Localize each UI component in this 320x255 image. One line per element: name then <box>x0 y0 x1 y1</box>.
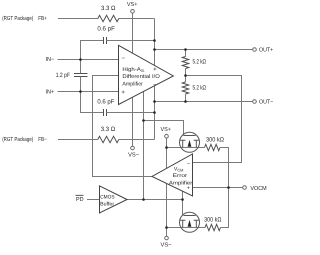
wire OUT+ row <box>155 49 253 51</box>
wire R6 to VOCM node <box>221 188 229 228</box>
svg-text:5.2 kΩ: 5.2 kΩ <box>193 59 207 66</box>
wire VS- bottom terminal riser <box>166 228 168 237</box>
node junction dot 6 <box>153 111 156 114</box>
node junction dot 9 <box>184 100 187 103</box>
wire VS+ mid terminal drop <box>166 138 168 168</box>
wire error amp output to main amp (CM control) <box>93 76 153 177</box>
wire C2 to IN+ <box>80 77 82 92</box>
power VS+ top drop to amplifier <box>132 13 134 53</box>
op-amp U1 High-AOL Differential I/O Amplifier <box>119 45 174 104</box>
node junction dot 11 <box>165 226 168 229</box>
svg-text:OUT+: OUT+ <box>259 46 274 53</box>
svg-text:VOCM: VOCM <box>250 185 266 192</box>
node junction dot 8 <box>184 74 187 77</box>
svg-text:(RGT Package): (RGT Package) <box>2 15 33 22</box>
wire PD rail from amplifier to buffer output <box>143 91 145 199</box>
node junction dot 14 <box>181 198 184 201</box>
node junction dot 1 <box>79 58 82 61</box>
svg-text:−: − <box>122 56 126 62</box>
wire PD input lead <box>87 199 100 201</box>
svg-text:0.6 pF: 0.6 pF <box>97 25 115 32</box>
svg-text:Buffer: Buffer <box>100 201 114 207</box>
node junction dot 7 <box>184 48 187 51</box>
wire right rail lower (OUT-/C3/FB- node) <box>154 85 156 139</box>
svg-text:5.2 kΩ: 5.2 kΩ <box>193 84 207 91</box>
wire OUT- row <box>155 101 253 103</box>
node junction dot 15 <box>227 186 230 189</box>
svg-text:VCM: VCM <box>174 166 184 172</box>
terminal OUT+ <box>253 48 257 52</box>
svg-text:IN+: IN+ <box>46 90 55 96</box>
svg-text:0.6 pF: 0.6 pF <box>97 98 114 105</box>
node FB- wire (left lead) <box>58 139 98 141</box>
power VS- drop from amplifier <box>132 97 134 146</box>
wire C3 row right <box>107 112 155 114</box>
wire IN- row <box>58 59 119 61</box>
resistor R1 3.3 ohm <box>98 15 119 21</box>
svg-text:3.3 Ω: 3.3 Ω <box>101 5 116 12</box>
svg-text:−: − <box>187 162 190 168</box>
svg-text:+: + <box>153 67 157 73</box>
svg-text:VS+: VS+ <box>127 1 138 8</box>
svg-text:Differential I/O: Differential I/O <box>122 74 159 80</box>
capacitor C3 0.6 pF <box>104 109 107 116</box>
svg-text:+: + <box>187 186 190 192</box>
transistor Q1 current-source MOSFET <box>180 132 200 152</box>
node junction dot 12 <box>142 119 145 122</box>
label PD overline <box>76 194 84 196</box>
wire C1 row left + drop to IN- <box>81 41 104 60</box>
svg-text:OUT−: OUT− <box>259 98 274 105</box>
svg-text:300 kΩ: 300 kΩ <box>206 137 224 144</box>
svg-text:PD: PD <box>76 197 84 203</box>
wire right rail upper (FB+/C1/OUT+ node) <box>154 19 156 66</box>
svg-text:−: − <box>153 82 157 88</box>
node junction dot 4 <box>153 48 156 51</box>
terminal OUT- <box>253 100 257 104</box>
svg-text:Error: Error <box>173 173 188 179</box>
terminal VS- mid <box>131 146 135 150</box>
terminal VS- bottom <box>165 236 169 240</box>
capacitor C2 1.2 pF <box>74 74 88 77</box>
wire FB- resistor to rail <box>119 139 155 141</box>
svg-text:FB−: FB− <box>38 137 47 143</box>
terminal VS+ mid <box>165 134 169 138</box>
svg-text:Amplifier: Amplifier <box>122 82 143 88</box>
buffer U3 CMOS buffer <box>100 186 128 213</box>
wire C1 row right <box>107 40 155 42</box>
terminal VOCM <box>243 186 247 190</box>
wire VOCM row <box>193 187 243 189</box>
resistor R2 3.3 ohm <box>98 136 119 142</box>
wire IN+ down to C3 row <box>81 92 104 113</box>
capacitor C1 0.6 pF <box>104 37 107 44</box>
wire FB+ resistor to output node rail <box>119 18 155 20</box>
resistor R4 5.2 kohm <box>182 82 188 94</box>
wire R5 to VOCM node <box>220 148 229 188</box>
svg-text:+: + <box>121 90 125 96</box>
wire VS- row to Q2 and R6 <box>167 227 206 229</box>
node FB+ wire (left lead) <box>58 18 98 20</box>
node junction dot 2 <box>79 90 82 93</box>
wire error amp VS- power <box>166 184 168 228</box>
transistor Q2 current-source MOSFET <box>180 212 200 232</box>
svg-text:IN−: IN− <box>46 57 55 63</box>
resistor R5 300 kohm <box>205 144 221 150</box>
svg-text:300 kΩ: 300 kΩ <box>204 217 222 224</box>
svg-text:CMOS: CMOS <box>100 194 115 200</box>
op-amp U2 VCM Error Amplifier <box>152 154 193 196</box>
svg-text:(RGT Package): (RGT Package) <box>2 136 33 143</box>
node junction dot 10 <box>165 146 168 149</box>
svg-text:VS−: VS− <box>161 241 173 248</box>
node junction dot 5 <box>153 100 156 103</box>
wire PD stub to error amp and Q2 gate <box>182 191 184 215</box>
node junction dot 3 <box>153 39 156 42</box>
wire buffer output row <box>127 199 183 201</box>
resistor R3 5.2 kohm <box>182 57 188 69</box>
svg-text:VS+: VS+ <box>161 126 172 133</box>
svg-text:FB+: FB+ <box>38 16 47 22</box>
resistor R6 300 kohm <box>205 224 221 230</box>
terminal VS+ top <box>131 10 135 14</box>
wire VS+ row to Q1 and R5 <box>167 147 205 149</box>
svg-text:1.2 pF: 1.2 pF <box>56 72 70 79</box>
svg-text:VS−: VS− <box>128 151 140 158</box>
wire IN- to C2 <box>80 60 82 74</box>
wire PD branch to Q1 gate <box>144 121 184 136</box>
wire common-mode sense to error amp inverting input <box>186 76 242 163</box>
wire IN+ row <box>58 91 119 93</box>
wire divider bottom lead <box>185 94 187 102</box>
svg-text:3.3 Ω: 3.3 Ω <box>101 126 116 133</box>
node junction dot 13 <box>142 198 145 201</box>
svg-text:High-AOL: High-AOL <box>122 67 145 73</box>
wire divider top lead <box>185 50 187 57</box>
wire divider middle <box>185 69 187 83</box>
